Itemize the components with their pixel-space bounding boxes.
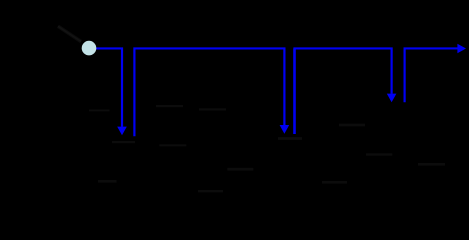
wire: third return and final segment: [405, 48, 459, 102]
wire: second return and third span with third descent: [293, 48, 296, 134]
arrowhead down 2: [280, 125, 290, 134]
faint text smudge row 10: [227, 168, 253, 171]
faint text smudge row 1: [89, 110, 110, 112]
faint text smudge row 6: [418, 163, 445, 166]
label leader line core: [58, 26, 81, 41]
arrowhead right (end of axis): [457, 44, 466, 54]
faint text smudge row 2: [156, 105, 183, 107]
wire: start segment with first descent: [96, 48, 123, 126]
arrowhead down 3: [387, 94, 397, 103]
wire: third span with third descent: [293, 48, 391, 93]
faint text smudge row 5: [366, 153, 392, 155]
faint text smudge row 7: [98, 180, 117, 183]
start node circle: [82, 41, 97, 56]
faint text smudge row 12: [322, 181, 347, 184]
label leader line (faint, soft): [58, 26, 81, 41]
faint text smudge row 4: [339, 124, 365, 127]
wire: first return and second span with second descent: [134, 48, 284, 136]
arrowhead down 1: [117, 127, 127, 136]
faint text smudge row 9: [159, 144, 186, 146]
faint text smudge row 8: [112, 141, 135, 143]
faint text smudge row 11: [198, 190, 223, 192]
faint text smudge row 3: [199, 108, 226, 110]
faint text smudge row 13: [278, 137, 302, 140]
